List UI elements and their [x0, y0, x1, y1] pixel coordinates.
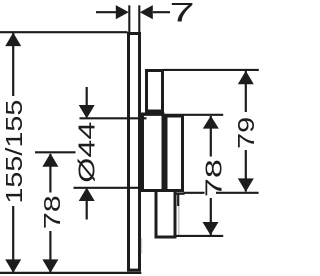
dimension 79 line upper	[245, 71, 247, 112]
svg-text:Ø44: Ø44	[74, 121, 100, 182]
extension line handle bottom (O44 dim)	[74, 187, 142, 189]
dimension 78 right line lower	[210, 198, 212, 235]
sleeve (mid body behind plate)	[143, 114, 164, 191]
extension line plate right face (7 dim)	[138, 5, 140, 32]
extension line bottom of outer mid (79 dim)	[184, 192, 259, 194]
dimension O44 arrow down	[79, 105, 95, 119]
dimension 7 leader left	[96, 11, 116, 13]
outer lower body left edge upper (dark)	[177, 193, 179, 206]
plate (wall plate 155x155, side view)	[129, 34, 140, 271]
dimension O44 stem upper	[86, 87, 88, 112]
outer lower body top edge	[171, 192, 185, 194]
extension line handle top (O44 dim)	[80, 117, 147, 119]
svg-text:78: 78	[201, 159, 227, 197]
extension line plate left face (7 dim)	[128, 5, 130, 32]
dimension 7 leader right	[153, 11, 170, 13]
dimension 79 arrow up	[238, 71, 254, 85]
dimension O44 stem lower	[86, 195, 88, 220]
extension line top-left (155 top)	[0, 31, 128, 33]
dimension 7 arrow left	[140, 5, 153, 19]
upper knob	[147, 71, 163, 112]
outer lower body left edge lower (faint)	[178, 206, 180, 235]
svg-text:78: 78	[39, 195, 65, 229]
dimension 78 left arrow up	[42, 153, 58, 167]
outer mid body	[166, 116, 183, 191]
dimension 155/155 line lower	[12, 206, 14, 272]
dimension 78 right arrow down	[203, 222, 219, 235]
dimension 78 right text knockout	[205, 177, 217, 197]
lower knob	[156, 191, 175, 238]
dimension 78 left line upper	[49, 154, 51, 193]
dimension 79 arrow down	[238, 178, 254, 192]
dimension 78 right arrow up	[203, 116, 219, 129]
extension line bottom (155 bottom)	[0, 272, 141, 274]
dimension 78 right line upper	[210, 116, 212, 157]
dimension O44 arrow up	[79, 188, 95, 202]
faint hidden edge near plate	[141, 238, 143, 254]
extension line top of outer body (78 right dim)	[144, 114, 223, 116]
svg-text:155/155: 155/155	[1, 100, 27, 204]
svg-text:79: 79	[233, 117, 259, 149]
dimension 155/155 line upper	[12, 33, 14, 96]
dimension 155/155 arrow up	[5, 33, 21, 47]
extension line top of body (79 dim)	[163, 69, 259, 71]
dimension 7 arrow right	[116, 5, 129, 19]
dimension 78 left arrow down	[42, 259, 58, 273]
dimension 155/155 arrow down	[5, 259, 21, 273]
extension line bottom of outer lower (78 right dim)	[176, 235, 223, 237]
dimension 79 line lower	[245, 150, 247, 192]
dimension 78 left line lower	[49, 231, 51, 272]
svg-text:7: 7	[170, 0, 195, 27]
extension line handle axis (78 left dim)	[35, 151, 76, 153]
